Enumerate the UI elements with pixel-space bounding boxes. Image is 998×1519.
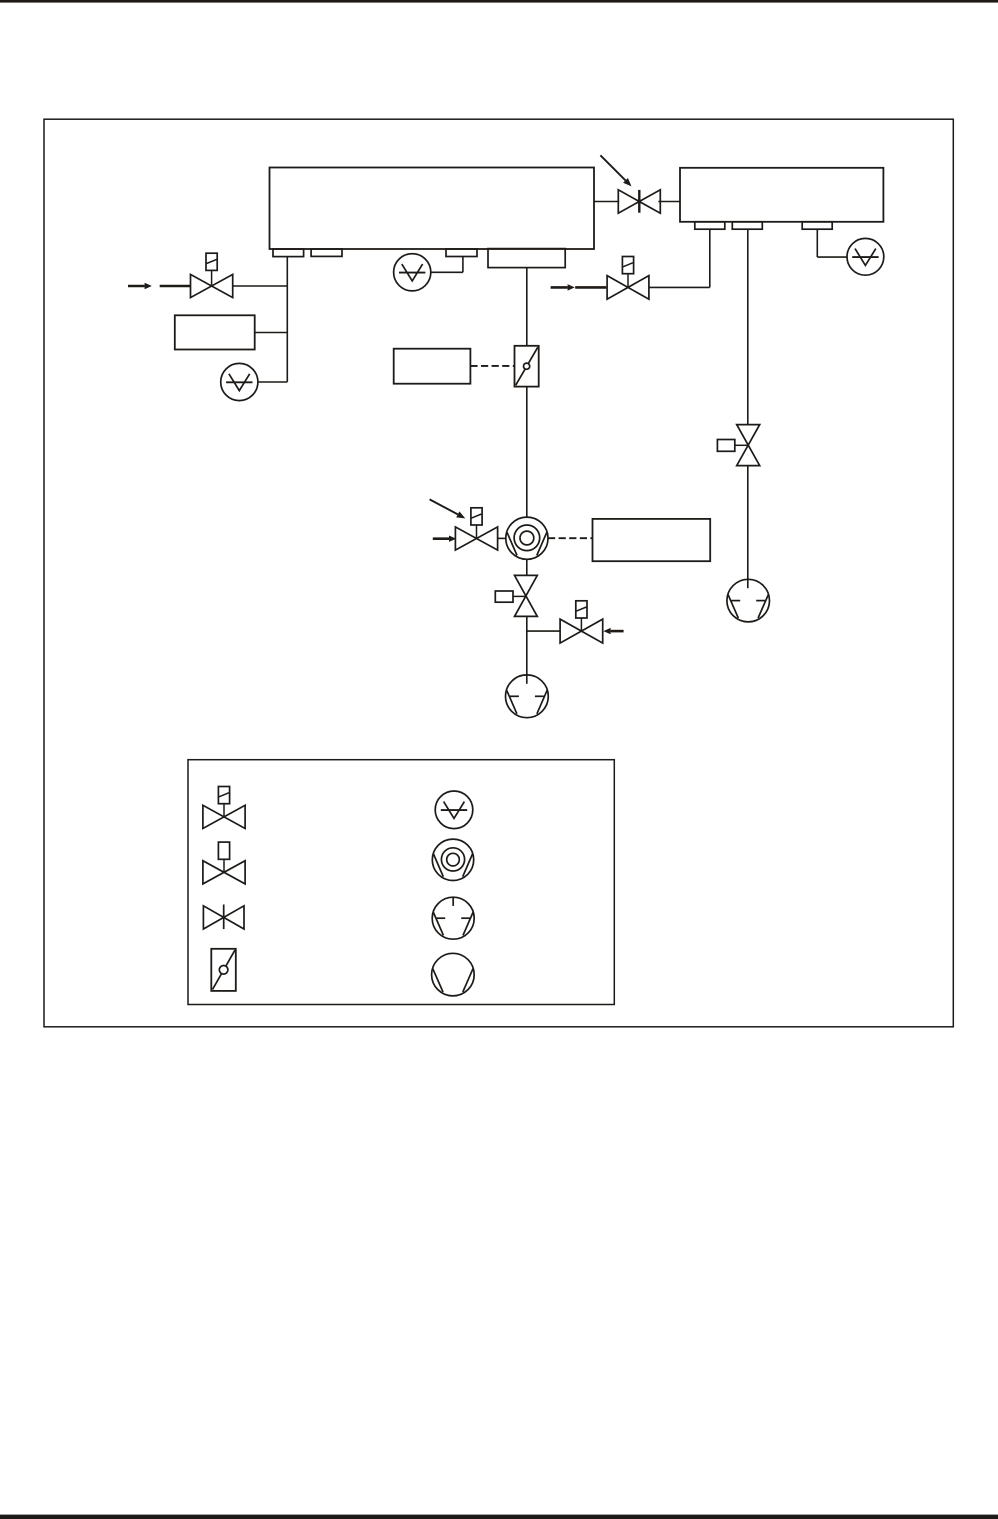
wire MV1 down [526,616,528,683]
port L2 [311,249,342,256]
vacuum pump P2 [727,579,770,622]
legend pressure gauge [435,791,473,829]
inlet pipe [160,285,191,288]
wire B1 to riser [255,332,288,334]
wire branch to SV4 [527,630,560,632]
riser wire [286,257,288,382]
controller box B2 [394,349,471,384]
solenoid valve SV1 [191,253,233,297]
outdoor unit box [680,168,883,222]
indoor unit box [270,168,595,250]
vacuum pump P1 [506,675,549,718]
arrow pointing at SV3 [430,499,466,518]
dashed signal line C1 [548,537,593,539]
diagram frame [44,119,953,1027]
service valve V1 [618,190,660,213]
port R3 [802,222,832,229]
flow arrow F4 [603,628,623,634]
pressure gauge G1 [221,363,258,400]
compressor C1 [506,517,548,559]
legend box [188,760,614,1005]
wire C1 down [526,559,528,575]
legend vacuum pump [432,897,474,939]
legend sight glass [211,949,236,991]
flow arrow F2 [551,284,575,290]
wire port L4 down [526,268,528,347]
wire port R2 down [747,229,749,424]
port L3 [446,249,477,257]
flow arrow F3 [433,536,456,542]
legend manual valve [203,905,244,930]
solenoid valve SV3 [455,508,497,550]
arrow pointing at V1 [600,155,631,186]
port R2 [732,222,762,229]
legend motor valve [203,842,245,884]
legend solenoid valve [203,787,245,829]
charge unit box B1 [175,315,255,349]
wire SV2 to port R1 [649,229,710,287]
wire left-box to valve [594,201,619,203]
motor valve MV1 [495,575,537,616]
inlet pipe right [575,286,606,289]
wire MV2 to pump [747,466,749,589]
wire SG1 to compressor [526,387,528,518]
motor valve MV2 [717,425,759,466]
dashed signal line B2 [470,365,514,367]
pressure gauge G2 [394,254,431,291]
wire SV1 to riser [233,285,288,287]
page footer rule [0,1515,998,1519]
legend compressor [432,839,473,880]
solenoid valve SV4 [560,601,603,643]
wire G2 to port L3 [431,257,463,273]
port L1 [273,249,304,257]
flow arrow F1 [128,283,152,289]
wire valve to right box [658,201,680,203]
legend pump [432,953,475,996]
wire port R3 to gauge [817,229,847,257]
wire SV3 to compressor [498,537,507,539]
sight glass SG1 [515,346,539,387]
page header rule [0,0,998,3]
wire G1 to riser [258,381,287,383]
solenoid valve SV2 [607,257,649,300]
inverter box B3 [593,519,711,561]
port L4 [488,249,565,268]
port R1 [695,222,725,229]
pressure gauge G3 [847,238,884,275]
